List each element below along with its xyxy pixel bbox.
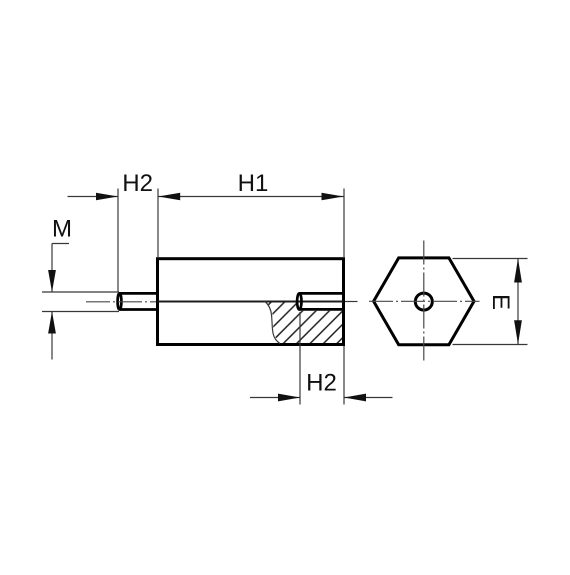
M extension line (stud top) — [42, 291, 119, 293]
extension line at stud left end — [117, 189, 119, 292]
H2 bottom left leader — [250, 397, 300, 399]
H1 left arrowhead — [158, 193, 180, 201]
hex corner edge line across body — [158, 301, 344, 303]
label M (stud thread size) — [54, 220, 70, 237]
E bottom arrowhead (down) — [514, 320, 522, 344]
E extension line bottom — [453, 344, 528, 346]
H2 bottom left arrowhead — [278, 394, 300, 402]
H2 bottom right arrowhead — [344, 394, 366, 402]
hexagon (end view) — [374, 258, 474, 345]
male threaded stud — [118, 293, 158, 309]
label H2 (stud length, top) — [124, 174, 152, 191]
M dimension line lower segment — [51, 312, 53, 360]
label E (across flats, rotated) — [493, 296, 510, 309]
label H1 (body length) — [240, 174, 268, 191]
extension line at thread depth — [299, 312, 301, 405]
E dimension line — [517, 259, 519, 345]
M extension line (stud bottom) — [42, 311, 119, 313]
extension line at body right edge (top) — [343, 189, 345, 258]
label H2 (thread depth, bottom) — [308, 374, 336, 391]
M leader shoulder — [52, 243, 69, 245]
stud centerline (dash-dot) — [86, 301, 156, 303]
H2 top leader line — [68, 196, 119, 198]
M lower arrowhead (up) — [48, 312, 56, 334]
center hole circle (end view) — [415, 293, 432, 310]
body (side view outline) — [158, 259, 344, 345]
M upper arrowhead (down) — [48, 270, 56, 292]
H2 bottom right leader — [344, 397, 393, 399]
tapped hole (female thread) — [297, 293, 343, 309]
horizontal centerline (end view) — [369, 300, 480, 302]
M dimension line upper segment — [51, 244, 53, 292]
vertical centerline (end view) — [423, 241, 425, 361]
E extension line top — [453, 258, 528, 260]
section break line (wavy) — [265, 302, 280, 344]
H1 right arrowhead — [322, 193, 344, 201]
extension line at body left edge — [157, 189, 159, 258]
H2 top arrowhead — [96, 193, 118, 201]
H1 dimension line — [158, 196, 343, 198]
centerline extension right of body — [345, 301, 358, 303]
extension line at body right edge (bottom) — [343, 346, 345, 405]
section hatch — [266, 303, 342, 344]
E top arrowhead (up) — [514, 259, 522, 283]
